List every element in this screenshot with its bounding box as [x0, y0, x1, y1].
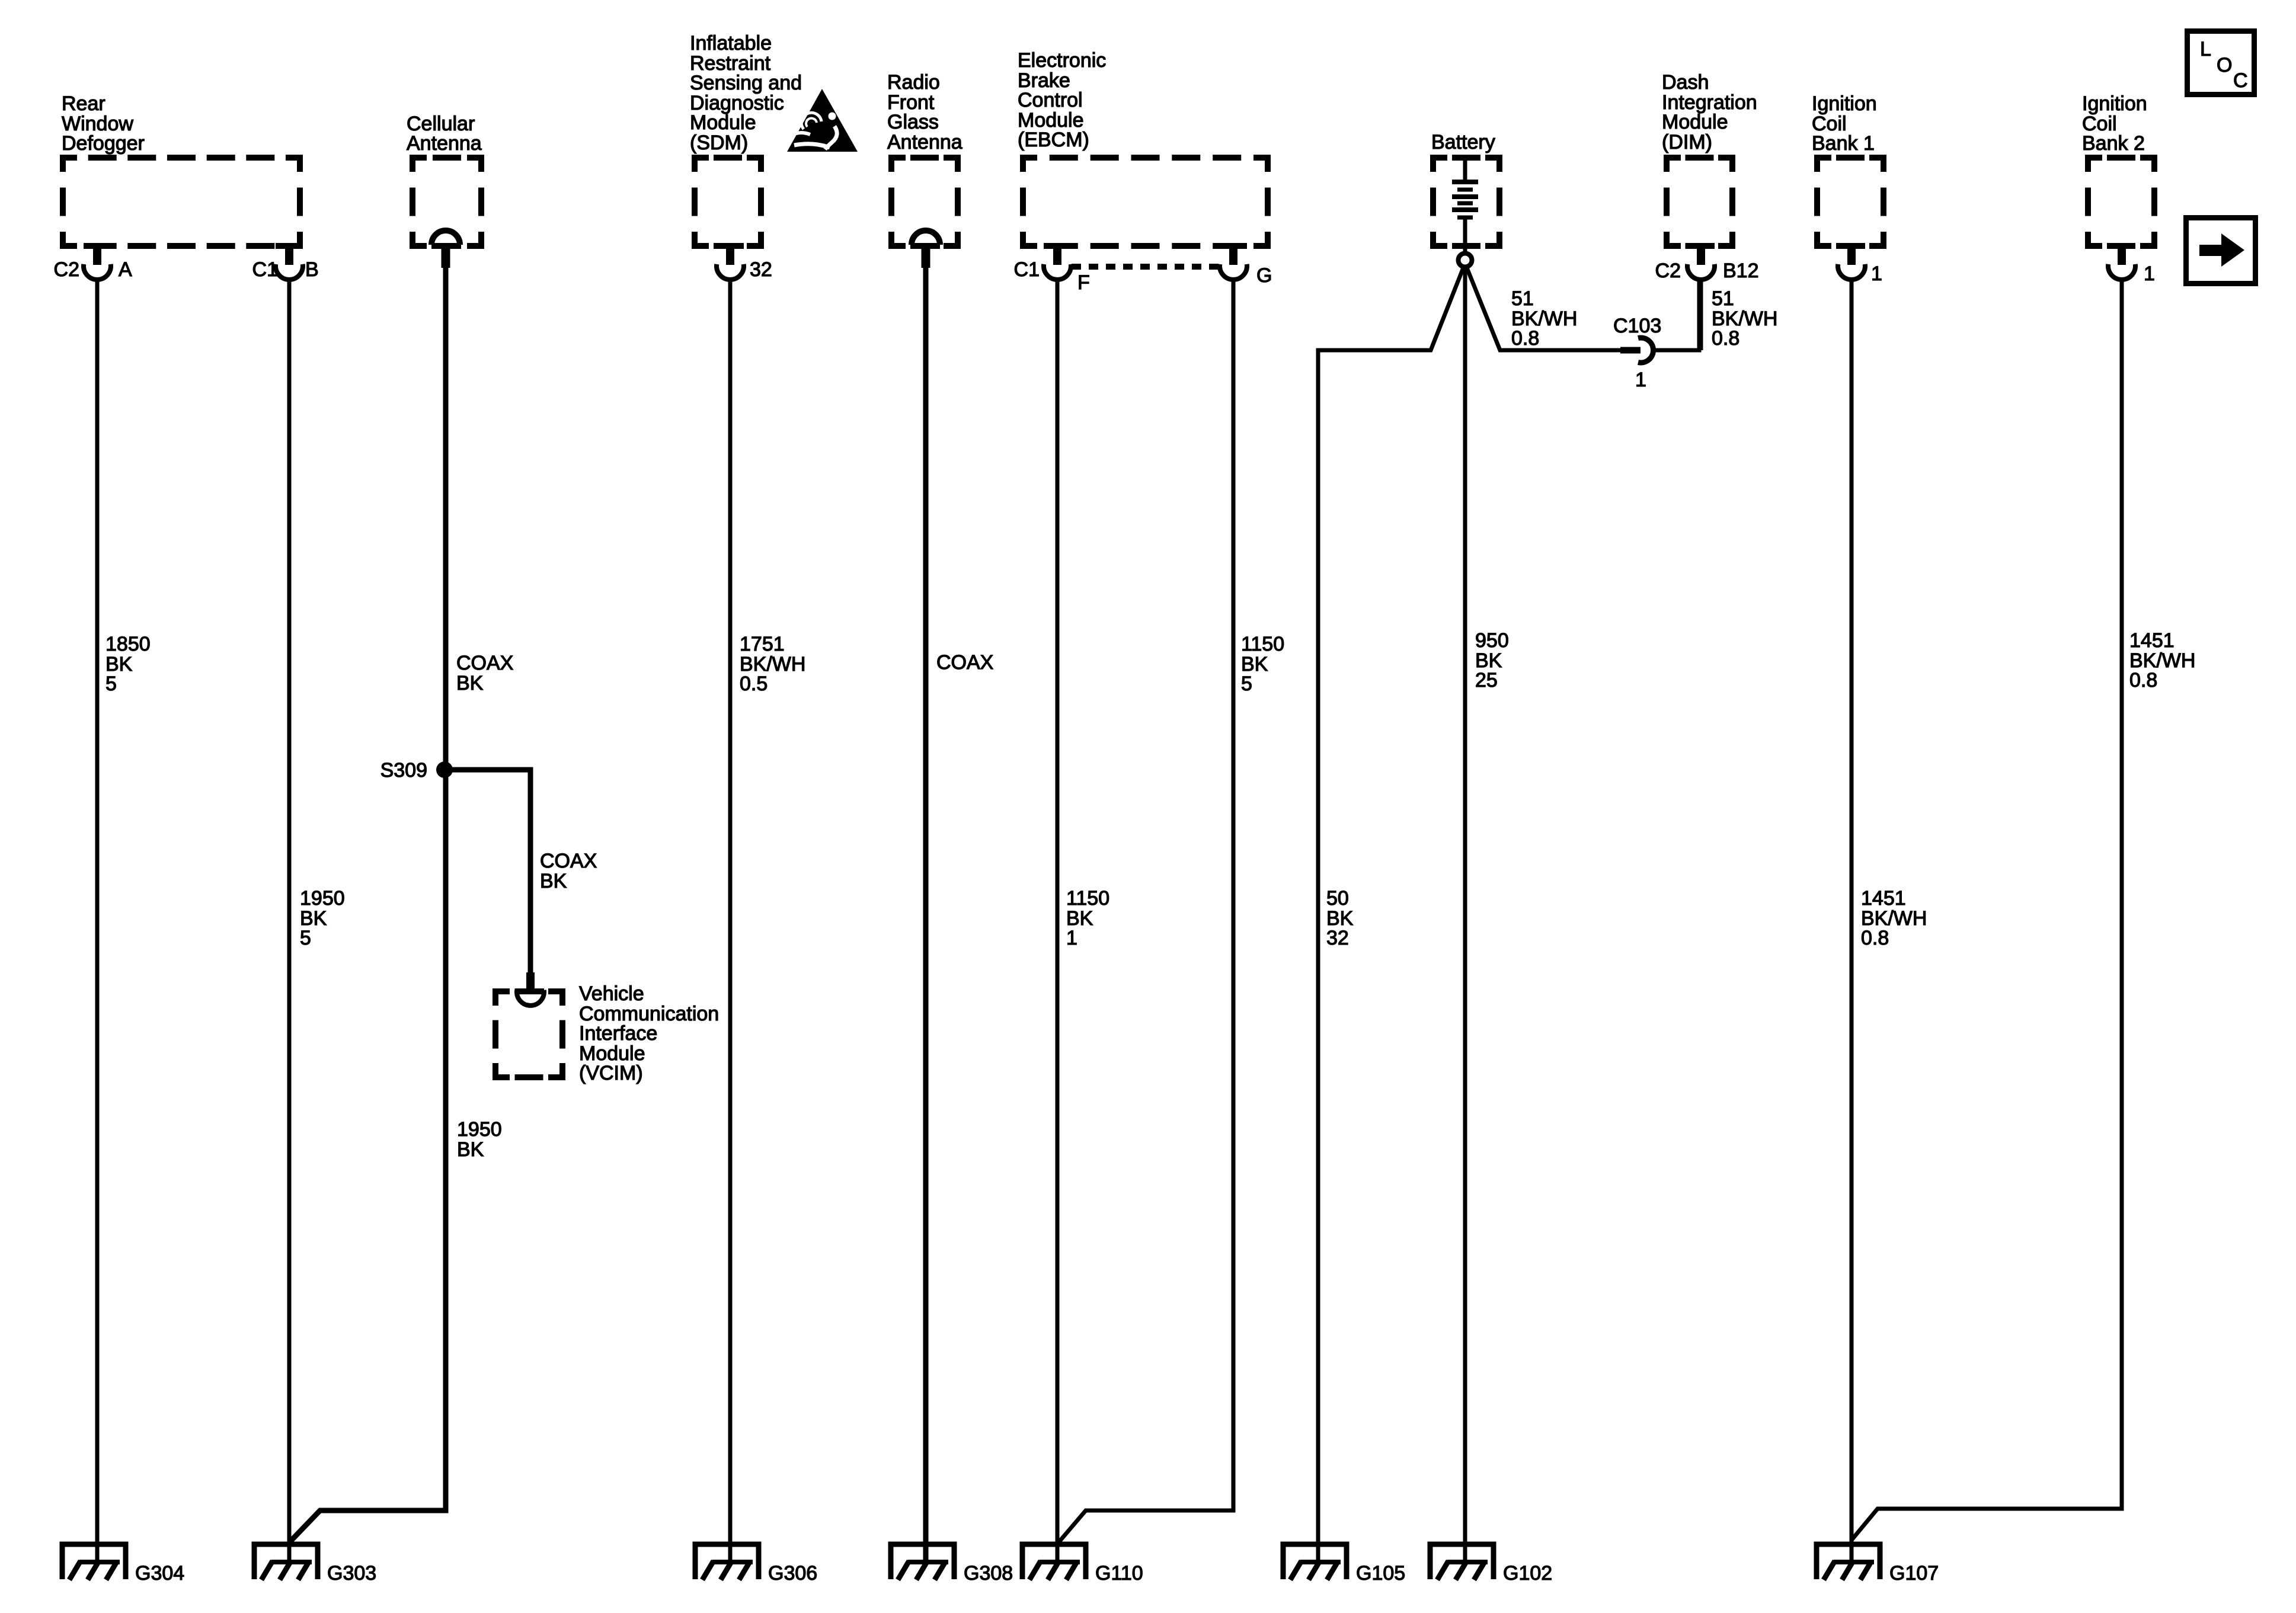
svg-text:COAX: COAX: [936, 651, 993, 674]
svg-text:Sensing and: Sensing and: [690, 72, 802, 94]
svg-text:1850: 1850: [105, 633, 151, 655]
svg-text:C2: C2: [54, 258, 79, 281]
svg-text:G304: G304: [135, 1562, 184, 1585]
svg-text:Module: Module: [690, 111, 756, 134]
svg-text:Glass: Glass: [887, 111, 939, 133]
svg-text:G308: G308: [964, 1562, 1013, 1585]
svg-text:COAX: COAX: [540, 850, 597, 872]
svg-text:L: L: [2200, 38, 2211, 60]
svg-text:Inflatable: Inflatable: [690, 32, 772, 55]
svg-text:1751: 1751: [740, 633, 785, 655]
svg-text:S309: S309: [380, 759, 427, 782]
svg-text:B12: B12: [1723, 260, 1759, 282]
svg-text:1: 1: [1066, 927, 1077, 949]
svg-text:1950: 1950: [300, 887, 345, 910]
svg-text:C: C: [2233, 69, 2248, 92]
svg-text:Control: Control: [1018, 89, 1083, 111]
svg-text:Defogger: Defogger: [62, 132, 145, 155]
svg-text:(EBCM): (EBCM): [1018, 129, 1089, 151]
svg-text:C103: C103: [1613, 315, 1661, 337]
svg-text:G102: G102: [1503, 1562, 1552, 1585]
svg-text:Radio: Radio: [887, 71, 940, 94]
svg-text:(DIM): (DIM): [1662, 131, 1712, 153]
svg-text:C2: C2: [1655, 260, 1681, 282]
svg-text:F: F: [1077, 271, 1090, 294]
svg-text:32: 32: [1326, 927, 1349, 949]
svg-text:25: 25: [1475, 669, 1498, 692]
svg-text:Ignition: Ignition: [1812, 92, 1877, 115]
svg-text:BK: BK: [456, 672, 484, 695]
svg-text:Bank 1: Bank 1: [1812, 132, 1875, 155]
svg-text:BK: BK: [540, 870, 567, 892]
svg-text:COAX: COAX: [456, 652, 513, 674]
svg-text:1950: 1950: [457, 1118, 502, 1141]
svg-text:Dash: Dash: [1662, 71, 1709, 94]
svg-text:Vehicle: Vehicle: [579, 982, 644, 1005]
svg-text:1: 1: [1635, 369, 1646, 391]
svg-text:1451: 1451: [1861, 887, 1906, 910]
svg-text:32: 32: [750, 258, 772, 281]
svg-text:5: 5: [300, 927, 311, 949]
svg-text:5: 5: [105, 673, 117, 695]
svg-text:C1: C1: [1014, 258, 1040, 281]
svg-text:G303: G303: [327, 1562, 376, 1585]
svg-text:1: 1: [1871, 263, 1882, 285]
svg-text:A: A: [119, 258, 132, 281]
svg-text:G: G: [1256, 264, 1272, 287]
svg-text:0.8: 0.8: [1861, 927, 1889, 949]
svg-text:0.8: 0.8: [1712, 327, 1739, 350]
svg-text:950: 950: [1475, 629, 1509, 652]
svg-text:G107: G107: [1889, 1562, 1939, 1585]
svg-text:G306: G306: [768, 1562, 817, 1585]
svg-text:C1: C1: [252, 258, 278, 281]
svg-text:G105: G105: [1356, 1562, 1405, 1585]
svg-text:Battery: Battery: [1431, 131, 1495, 153]
svg-text:1150: 1150: [1241, 633, 1284, 655]
svg-text:0.8: 0.8: [2129, 669, 2157, 692]
svg-text:1451: 1451: [2129, 629, 2175, 652]
svg-text:Antenna: Antenna: [407, 132, 482, 155]
svg-text:50: 50: [1326, 887, 1349, 910]
svg-text:O: O: [2217, 54, 2232, 76]
svg-text:5: 5: [1241, 673, 1252, 695]
svg-text:Bank 2: Bank 2: [2082, 132, 2145, 155]
svg-text:Rear: Rear: [62, 92, 105, 115]
svg-text:Interface: Interface: [579, 1022, 657, 1045]
svg-text:0.5: 0.5: [740, 673, 768, 695]
svg-text:51: 51: [1511, 287, 1534, 310]
svg-text:BK: BK: [457, 1138, 484, 1161]
svg-text:(SDM): (SDM): [690, 132, 748, 154]
svg-text:0.8: 0.8: [1511, 327, 1539, 350]
svg-text:G110: G110: [1095, 1562, 1143, 1585]
svg-text:(VCIM): (VCIM): [579, 1062, 643, 1084]
svg-text:1150: 1150: [1066, 887, 1109, 910]
svg-text:Ignition: Ignition: [2082, 92, 2147, 115]
svg-text:1: 1: [2144, 263, 2155, 285]
svg-text:B: B: [305, 258, 319, 281]
svg-text:Antenna: Antenna: [887, 131, 962, 153]
svg-text:Electronic: Electronic: [1018, 49, 1106, 72]
svg-text:Module: Module: [1662, 111, 1728, 133]
svg-text:51: 51: [1712, 287, 1734, 310]
